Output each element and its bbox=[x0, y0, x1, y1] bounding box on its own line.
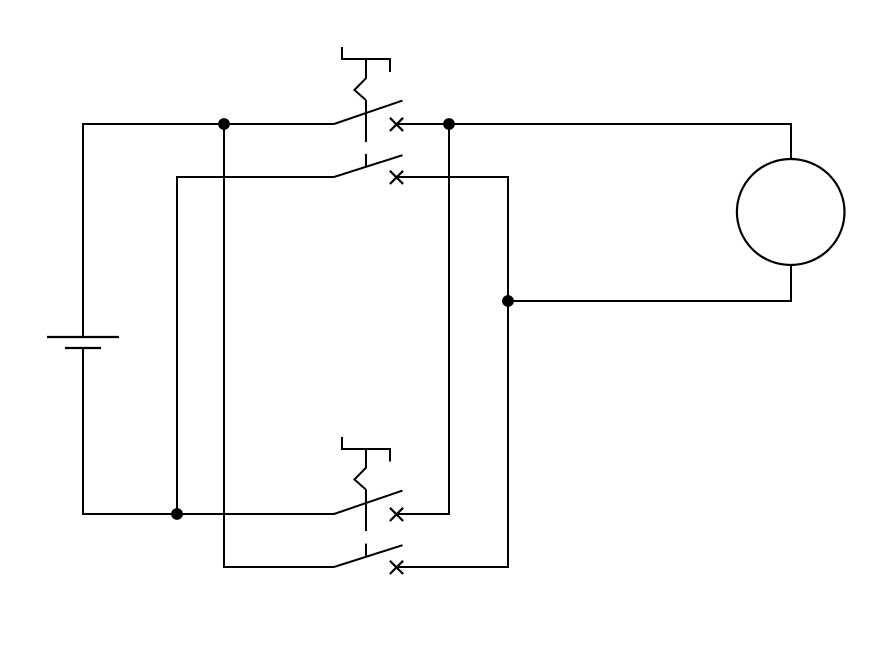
pushbutton S2 spring (zigzag) bbox=[354, 449, 366, 489]
wire: row4 right segment from S2 pole2 contact to x=508 vertical bbox=[397, 566, 509, 568]
wire: row2 left segment with corner up at x=177 bbox=[177, 177, 334, 514]
pushbutton S1 actuator rod (solid part) bbox=[365, 100, 367, 142]
switch S1 pole 1 blade bbox=[334, 101, 403, 124]
pushbutton S2 bracket (actuator cap) bbox=[341, 437, 391, 462]
wire: row4 left segment (from x=224 corner to switch S2 pole 2) bbox=[223, 566, 334, 568]
node C junction dot on row3 (x=177) bbox=[171, 508, 183, 520]
switch S2 pole 1 blade bbox=[334, 491, 403, 514]
node B junction dot on row1 (x=449) bbox=[443, 118, 455, 130]
node A junction dot on top rail bbox=[218, 118, 230, 130]
switch S1 pole 2 contact X bbox=[390, 171, 403, 184]
battery B1 bbox=[47, 337, 119, 348]
wire: battery positive up the left side to top rail bbox=[82, 124, 84, 336]
switch S2 pole 1 contact X bbox=[390, 508, 403, 521]
wire: row3 right segment from S2 pole1 contact to node B vertical bbox=[397, 513, 451, 515]
node D junction dot (x=508,y=301) bbox=[502, 295, 514, 307]
switch S2 pole 2 contact X bbox=[390, 561, 403, 574]
wire: row1 right segment from S1 contact to motor branch corner bbox=[397, 123, 791, 125]
wire: top rail row1 left segment (battery to switch S1 pole 1) bbox=[82, 123, 334, 125]
wire: node D horizontal rail to motor bottom corner bbox=[508, 300, 792, 302]
motor M1 (lamp/load circle) bbox=[737, 159, 845, 265]
wire: motor bottom lead down to node D rail bbox=[790, 265, 792, 301]
pushbutton S2 actuator rod (dashed link to pole 2) bbox=[365, 544, 367, 556]
wire: motor top lead, corner from row1 down to circle top bbox=[790, 124, 791, 159]
pushbutton S1 spring (zigzag) bbox=[354, 59, 366, 100]
wire: row2 right segment from S1 pole2 contact, corner down at x=508 to row4 bbox=[397, 177, 509, 568]
pushbutton S1 bracket (actuator cap) bbox=[341, 47, 391, 72]
wire: node A vertical down to switch S2 pole 2 row bbox=[223, 124, 225, 568]
wire: node B vertical down to row3 right end bbox=[448, 124, 450, 515]
switch S2 pole 2 blade bbox=[334, 545, 403, 567]
pushbutton S2 actuator rod (solid part) bbox=[365, 489, 367, 531]
switch S1 pole 1 contact X bbox=[390, 118, 403, 131]
switch S1 pole 2 blade bbox=[334, 155, 403, 177]
wire: battery negative down left side and along row3 to switch S2 pole 1 bbox=[83, 348, 334, 514]
pushbutton S1 actuator rod (dashed link to pole 2) bbox=[365, 154, 367, 167]
